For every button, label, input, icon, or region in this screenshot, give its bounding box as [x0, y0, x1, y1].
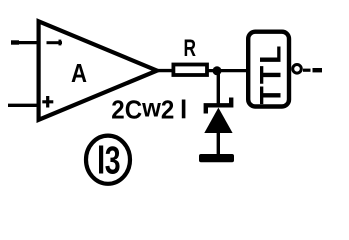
svg-text:R: R: [184, 35, 197, 62]
svg-text:3: 3: [105, 139, 121, 182]
svg-text:A: A: [71, 58, 87, 88]
svg-text:TTL: TTL: [255, 44, 288, 105]
svg-text:2Cw2: 2Cw2: [111, 92, 174, 124]
